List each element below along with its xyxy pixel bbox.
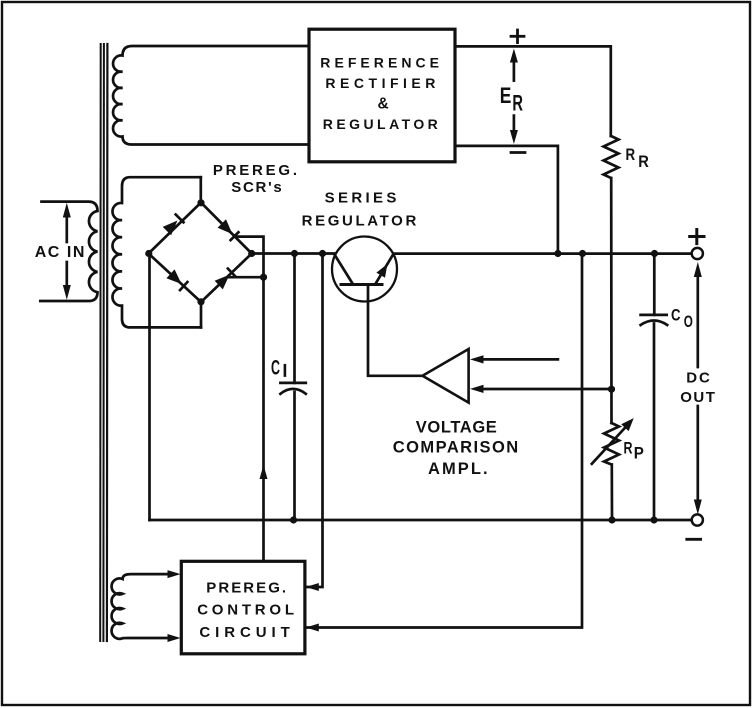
- svg-text:REGULATOR: REGULATOR: [323, 116, 438, 132]
- junction bridge left corner: [145, 250, 152, 257]
- junction bottom bus CO: [650, 516, 657, 523]
- AC IN measure arrows: [63, 203, 71, 300]
- plus sign top wire: [511, 30, 524, 43]
- junction divider amp input: [608, 386, 615, 393]
- capacitor CO: [641, 315, 668, 325]
- DC OUT measure arrows: [694, 262, 702, 515]
- svg-text:PREREG.: PREREG.: [213, 162, 297, 179]
- minus sign output: [687, 538, 701, 541]
- svg-text:C: C: [671, 307, 681, 325]
- junction bus CO tap: [651, 250, 658, 257]
- svg-text:SCR's: SCR's: [231, 179, 281, 196]
- plus sign output: [690, 230, 704, 244]
- series regulator transistor Q1: [332, 237, 397, 302]
- svg-text:C: C: [271, 355, 280, 379]
- junction SCR gate wire: [260, 274, 267, 281]
- svg-text:DC: DC: [686, 369, 710, 386]
- label reference rectifier: [320, 55, 439, 133]
- output terminal minus: [692, 514, 703, 525]
- main positive bus: [252, 252, 335, 255]
- voltage comparison amplifier U1: [423, 349, 469, 403]
- svg-text:CONTROL: CONTROL: [197, 602, 294, 619]
- capacitor CO wire: [653, 254, 656, 315]
- wire RR to RP divider: [610, 178, 613, 423]
- resistor RP: [604, 423, 619, 465]
- junction bottom bus CI: [290, 516, 297, 523]
- transformer secondary winding (SCR bridge): [112, 177, 201, 327]
- wire SCR gates to control circuit: [235, 237, 264, 562]
- svg-text:P: P: [634, 443, 644, 462]
- svg-text:R: R: [512, 90, 523, 115]
- SCR D2 top-right: [218, 219, 239, 240]
- transformer core: [100, 44, 107, 641]
- wire bridge left corner down to bottom bus: [148, 254, 151, 521]
- svg-text:COMPARISON: COMPARISON: [393, 438, 518, 456]
- SCR D3 bottom-left: [166, 269, 187, 290]
- wire - output of reference box down to bus: [455, 146, 558, 254]
- reference rectifier box: [309, 29, 455, 162]
- bridge rectifier diamond: [149, 203, 252, 303]
- arrows winding into control box: [168, 570, 181, 578]
- svg-text:O: O: [684, 313, 693, 331]
- wire bus to feedback down to control circuit: [307, 254, 582, 628]
- svg-text:REGULATOR: REGULATOR: [302, 212, 417, 229]
- arrow up on gate wire: [260, 465, 268, 479]
- junction bottom bus RP: [608, 516, 615, 523]
- junction bridge right corner: [248, 250, 255, 257]
- svg-text:AMPL.: AMPL.: [428, 460, 488, 478]
- junction bus CI tap: [291, 250, 298, 257]
- wire bus to control circuit input: [307, 254, 323, 588]
- amplifier lower input wire from divider: [483, 388, 612, 391]
- svg-text:R: R: [626, 145, 636, 164]
- wire transistor base to amplifier output: [368, 285, 422, 376]
- wire bridge bottom corner to winding: [200, 302, 203, 327]
- RP adjust arrow: [592, 418, 634, 464]
- bottom negative bus: [150, 519, 693, 522]
- svg-text:VOLTAGE: VOLTAGE: [416, 419, 497, 437]
- junction bus reference minus tap: [554, 250, 561, 257]
- transformer tertiary winding (control): [112, 574, 175, 639]
- capacitor CI: [280, 383, 305, 394]
- capacitor CI wire top: [293, 254, 296, 383]
- wire + output of reference box to RR: [455, 46, 611, 136]
- junction bridge bottom corner: [197, 298, 204, 305]
- prereg control circuit box: [181, 561, 305, 654]
- junction bus control tap: [319, 250, 326, 257]
- junction bridge top corner: [197, 199, 204, 206]
- transformer secondary winding (reference): [113, 46, 309, 145]
- SCR D4 bottom-right: [215, 269, 236, 290]
- wire bridge top corner to winding: [199, 177, 202, 203]
- resistor RR: [604, 136, 619, 178]
- SCR D1 top-left: [163, 215, 184, 236]
- ER measure arrows: [510, 49, 518, 145]
- transformer primary winding: [40, 202, 97, 301]
- svg-text:R: R: [638, 152, 649, 171]
- svg-text:REFERENCE: REFERENCE: [320, 55, 439, 71]
- svg-text:PREREG.: PREREG.: [206, 580, 286, 597]
- wire RP to bottom bus: [610, 465, 613, 521]
- svg-text:&: &: [378, 95, 389, 112]
- junction bus feedback tap: [579, 250, 586, 257]
- output terminal plus: [692, 248, 703, 259]
- capacitor CI wire bottom: [293, 392, 296, 520]
- svg-text:R: R: [624, 439, 633, 458]
- amplifier upper input wire from reference minus: [483, 358, 558, 361]
- minus sign reference: [511, 151, 525, 154]
- svg-text:OUT: OUT: [680, 389, 715, 406]
- svg-text:E: E: [500, 83, 512, 108]
